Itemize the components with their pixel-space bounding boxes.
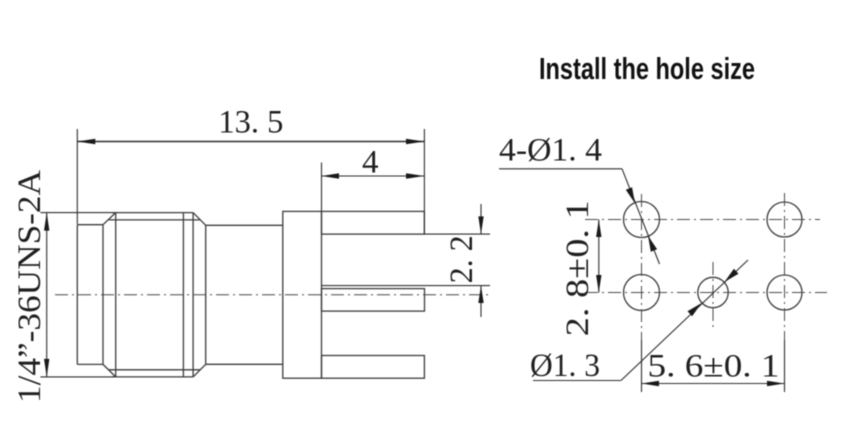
upper ground tab (322, 211, 425, 234)
hole pattern view (624, 202, 803, 311)
centerline column middle (712, 262, 714, 330)
centerline column left (641, 194, 643, 340)
hole H3 bottom-left (624, 275, 660, 311)
centerline row bottom (585, 292, 827, 294)
svg-text:2. 8±0. 1: 2. 8±0. 1 (560, 200, 596, 336)
arrow leader1.3 lower (688, 303, 702, 316)
hex corner chamfer diagonals (103, 213, 206, 377)
leader dia1.3 shoulder (533, 380, 621, 382)
hex chamfer shoulder bottom (109, 369, 201, 371)
hex flat boundary right (182, 213, 184, 377)
center pin (322, 289, 425, 312)
ext line 13.5 left (76, 129, 78, 224)
ext line 2.2 top (424, 233, 490, 235)
hex chamfer shoulder top (109, 219, 201, 221)
hole H2 top-right (767, 202, 802, 237)
threaded barrel (front plate) (77, 225, 103, 365)
svg-text:2. 2: 2. 2 (444, 235, 480, 283)
arrow leader1.3 upper (724, 269, 738, 282)
centerline connector axis (55, 294, 492, 296)
arrow leader1.4 upper (626, 187, 635, 203)
arrow 2.8 bottom (596, 275, 601, 293)
svg-text:4: 4 (362, 145, 379, 181)
ext line 4 left (321, 163, 323, 212)
ext line 13.5/4 right (423, 129, 425, 234)
svg-text:4-Ø1. 4: 4-Ø1. 4 (499, 133, 602, 169)
hex right edge (192, 213, 194, 377)
leader dia1.3 diagonal (621, 260, 748, 381)
svg-text:13. 5: 13. 5 (218, 105, 283, 141)
svg-text:Ø1. 3: Ø1. 3 (530, 348, 600, 384)
svg-text:1/4”-36UNS-2A: 1/4”-36UNS-2A (12, 170, 48, 403)
hole H1 top-left (624, 202, 660, 238)
ext line thread top (40, 212, 114, 214)
leader 4-dia1.4 diagonal (622, 169, 660, 264)
arrow 13.5 right (406, 139, 424, 144)
arrow leader1.4 lower (648, 236, 657, 252)
hole H4 bottom-middle (698, 277, 728, 307)
hex flat boundary left (115, 213, 117, 377)
arrow thread bottom (44, 359, 49, 377)
centerline column right (784, 193, 786, 340)
lower ground tab (322, 356, 425, 379)
ext line 2.2 bottom (322, 285, 491, 287)
arrow 2.2 top (478, 216, 483, 234)
arrow 5.6 left (642, 381, 660, 386)
ext line 5.6 left (641, 340, 643, 392)
hole H5 bottom-right (767, 275, 802, 310)
svg-text:5. 6±0. 1: 5. 6±0. 1 (648, 349, 780, 385)
arrow thread top (44, 213, 49, 231)
ext line thread bottom (40, 376, 114, 378)
dim line 2.8 (598, 220, 600, 293)
arrow 13.5 left (77, 139, 95, 144)
arrow 4 right (406, 173, 424, 178)
arrow 2.2 bottom (478, 286, 483, 303)
leader 4-dia1.4 shoulder (499, 168, 622, 170)
body cylinder (206, 225, 283, 364)
arrow 5.6 right (767, 381, 785, 386)
arrow 2.8 top (596, 220, 601, 238)
svg-text:Install the hole size: Install the hole size (539, 51, 755, 86)
hex nut top edge (112, 212, 193, 214)
hex nut bottom edge (112, 376, 193, 378)
dim line 5.6 (642, 383, 785, 385)
dim line 4 (322, 175, 425, 177)
arrow 4 left (322, 173, 340, 178)
dim line 13.5 (77, 141, 424, 143)
centerline row top (585, 219, 820, 221)
flange (283, 211, 322, 378)
dim line thread (46, 213, 48, 377)
ext line 5.6 right (784, 340, 786, 392)
dim line 2.2 arrows stems (480, 204, 482, 317)
